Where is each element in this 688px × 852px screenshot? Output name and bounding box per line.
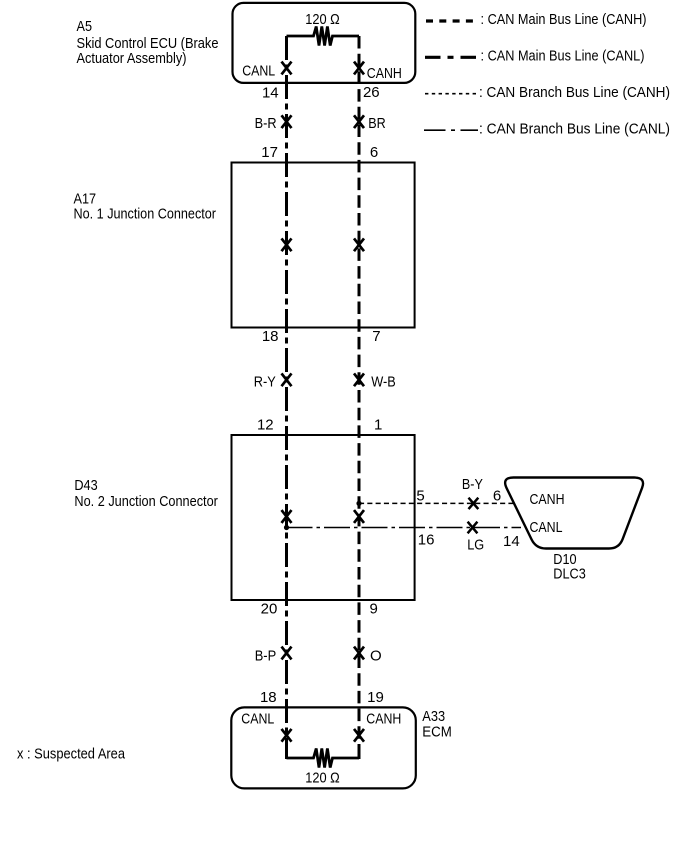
svg-text:A5: A5 bbox=[77, 18, 93, 35]
svg-text:No. 1 Junction Connector: No. 1 Junction Connector bbox=[74, 206, 217, 223]
legend: CAN Main Bus Line (CANL) bbox=[425, 48, 645, 65]
svg-text:B-P: B-P bbox=[255, 647, 277, 664]
svg-text:18: 18 bbox=[262, 328, 279, 345]
junction dot on CANL main at branch tap bbox=[284, 525, 289, 530]
svg-text:17: 17 bbox=[261, 144, 278, 161]
suspect mark X: A17 CANL bbox=[282, 238, 292, 251]
svg-text:14: 14 bbox=[262, 84, 279, 101]
svg-text:B-R: B-R bbox=[255, 115, 277, 132]
box A5 Skid Control ECU bbox=[233, 3, 416, 83]
svg-text:120 Ω: 120 Ω bbox=[305, 770, 340, 787]
svg-text:: CAN Branch Bus Line (CANH): : CAN Branch Bus Line (CANH) bbox=[479, 84, 670, 101]
suspect mark X: ECM CANL pin 18 bbox=[282, 729, 292, 742]
svg-text:: CAN Branch Bus Line (CANL): : CAN Branch Bus Line (CANL) bbox=[479, 120, 670, 137]
label A17 bbox=[74, 191, 217, 223]
svg-text:16: 16 bbox=[418, 531, 435, 548]
svg-text:A33: A33 bbox=[422, 708, 445, 725]
label A33 ECM bbox=[422, 708, 452, 741]
box A17 No. 1 Junction Connector bbox=[232, 163, 415, 328]
label D10 DLC3 bbox=[553, 551, 586, 583]
svg-text:O: O bbox=[370, 647, 382, 664]
svg-text:No. 2 Junction Connector: No. 2 Junction Connector bbox=[74, 493, 218, 510]
svg-text:CANH: CANH bbox=[366, 710, 401, 727]
suspect mark X: ECM CANH pin 19 bbox=[354, 729, 364, 742]
suspect mark X: LG branch wire bbox=[468, 522, 478, 534]
suspect mark X: B-P wire bbox=[282, 647, 292, 660]
svg-text:6: 6 bbox=[493, 488, 501, 505]
svg-text:CANL: CANL bbox=[242, 63, 275, 80]
svg-text:CANL: CANL bbox=[241, 710, 274, 727]
wire: solid stub CANH into ECM resistor bbox=[358, 745, 361, 759]
legend: CAN Branch Bus Line (CANL) bbox=[424, 120, 670, 137]
wire: CANH branch bus to DLC3 (thin dashed) bbox=[359, 502, 514, 504]
svg-text:R-Y: R-Y bbox=[254, 373, 276, 390]
resistor 120 ohm (ECM) with link wire bbox=[287, 749, 360, 768]
wire: solid stub CANL into ECM resistor bbox=[285, 745, 288, 759]
suspect mark X: CANH pin (A5) bbox=[354, 62, 364, 75]
wire: CANL main bus (left vertical, dash-dot thick) bbox=[285, 36, 288, 758]
suspect mark X: B-Y branch wire bbox=[469, 498, 479, 509]
svg-text:9: 9 bbox=[370, 601, 378, 618]
legend: CAN Branch Bus Line (CANH) bbox=[425, 84, 670, 101]
svg-text:ECM: ECM bbox=[422, 723, 452, 740]
suspect mark X: O wire bbox=[354, 647, 364, 660]
suspect mark X: R-Y wire bbox=[282, 373, 292, 386]
svg-text:LG: LG bbox=[467, 536, 484, 553]
svg-text:D43: D43 bbox=[74, 477, 97, 494]
svg-text:14: 14 bbox=[503, 533, 520, 550]
svg-text:BR: BR bbox=[368, 115, 386, 132]
junction dot on CANH main at branch tap bbox=[356, 501, 361, 506]
connector D10 DLC3 (trapezoid) bbox=[505, 478, 643, 549]
suspect mark X: W-B wire bbox=[354, 373, 364, 386]
box D43 No. 2 Junction Connector bbox=[232, 435, 415, 600]
svg-text:12: 12 bbox=[257, 417, 274, 434]
svg-text:: CAN Main Bus Line (CANH): : CAN Main Bus Line (CANH) bbox=[481, 11, 647, 28]
svg-text:Actuator Assembly): Actuator Assembly) bbox=[77, 50, 187, 67]
suspect mark X: D43 CANH bbox=[354, 510, 364, 523]
wire: CANL branch bus to DLC3 (thin dash-dot) bbox=[287, 527, 522, 529]
label D43 bbox=[74, 477, 218, 510]
suspect mark X: BR wire bbox=[354, 115, 364, 128]
svg-text:7: 7 bbox=[372, 328, 380, 345]
svg-text:26: 26 bbox=[363, 84, 380, 101]
svg-text:: CAN Main Bus Line (CANL): : CAN Main Bus Line (CANL) bbox=[481, 48, 645, 65]
box A33 ECM bbox=[231, 707, 415, 788]
svg-text:20: 20 bbox=[261, 601, 278, 618]
svg-text:DLC3: DLC3 bbox=[553, 566, 586, 583]
svg-text:W-B: W-B bbox=[371, 373, 396, 390]
svg-text:CANL: CANL bbox=[530, 519, 563, 536]
wire: CANH main bus (right vertical, dashed thick) bbox=[358, 36, 361, 758]
resistor 120 ohm (A5) with link wire bbox=[287, 27, 360, 46]
svg-text:19: 19 bbox=[367, 689, 384, 706]
svg-text:18: 18 bbox=[260, 689, 277, 706]
label A5 bbox=[77, 18, 219, 67]
suspect mark X: B-R wire bbox=[282, 115, 292, 128]
svg-text:x : Suspected Area: x : Suspected Area bbox=[17, 745, 126, 762]
svg-text:120 Ω: 120 Ω bbox=[305, 11, 340, 28]
svg-text:B-Y: B-Y bbox=[462, 476, 483, 493]
suspect mark X: D43 CANL bbox=[282, 510, 292, 523]
legend: CAN Main Bus Line (CANH) bbox=[426, 11, 647, 28]
svg-text:CANH: CANH bbox=[367, 65, 402, 82]
suspect mark X: CANL pin (A5) bbox=[282, 62, 292, 75]
suspect mark X: A17 CANH bbox=[354, 238, 364, 251]
svg-text:1: 1 bbox=[374, 417, 382, 434]
svg-text:CANH: CANH bbox=[530, 491, 565, 508]
svg-text:5: 5 bbox=[416, 488, 424, 505]
svg-text:6: 6 bbox=[370, 144, 378, 161]
